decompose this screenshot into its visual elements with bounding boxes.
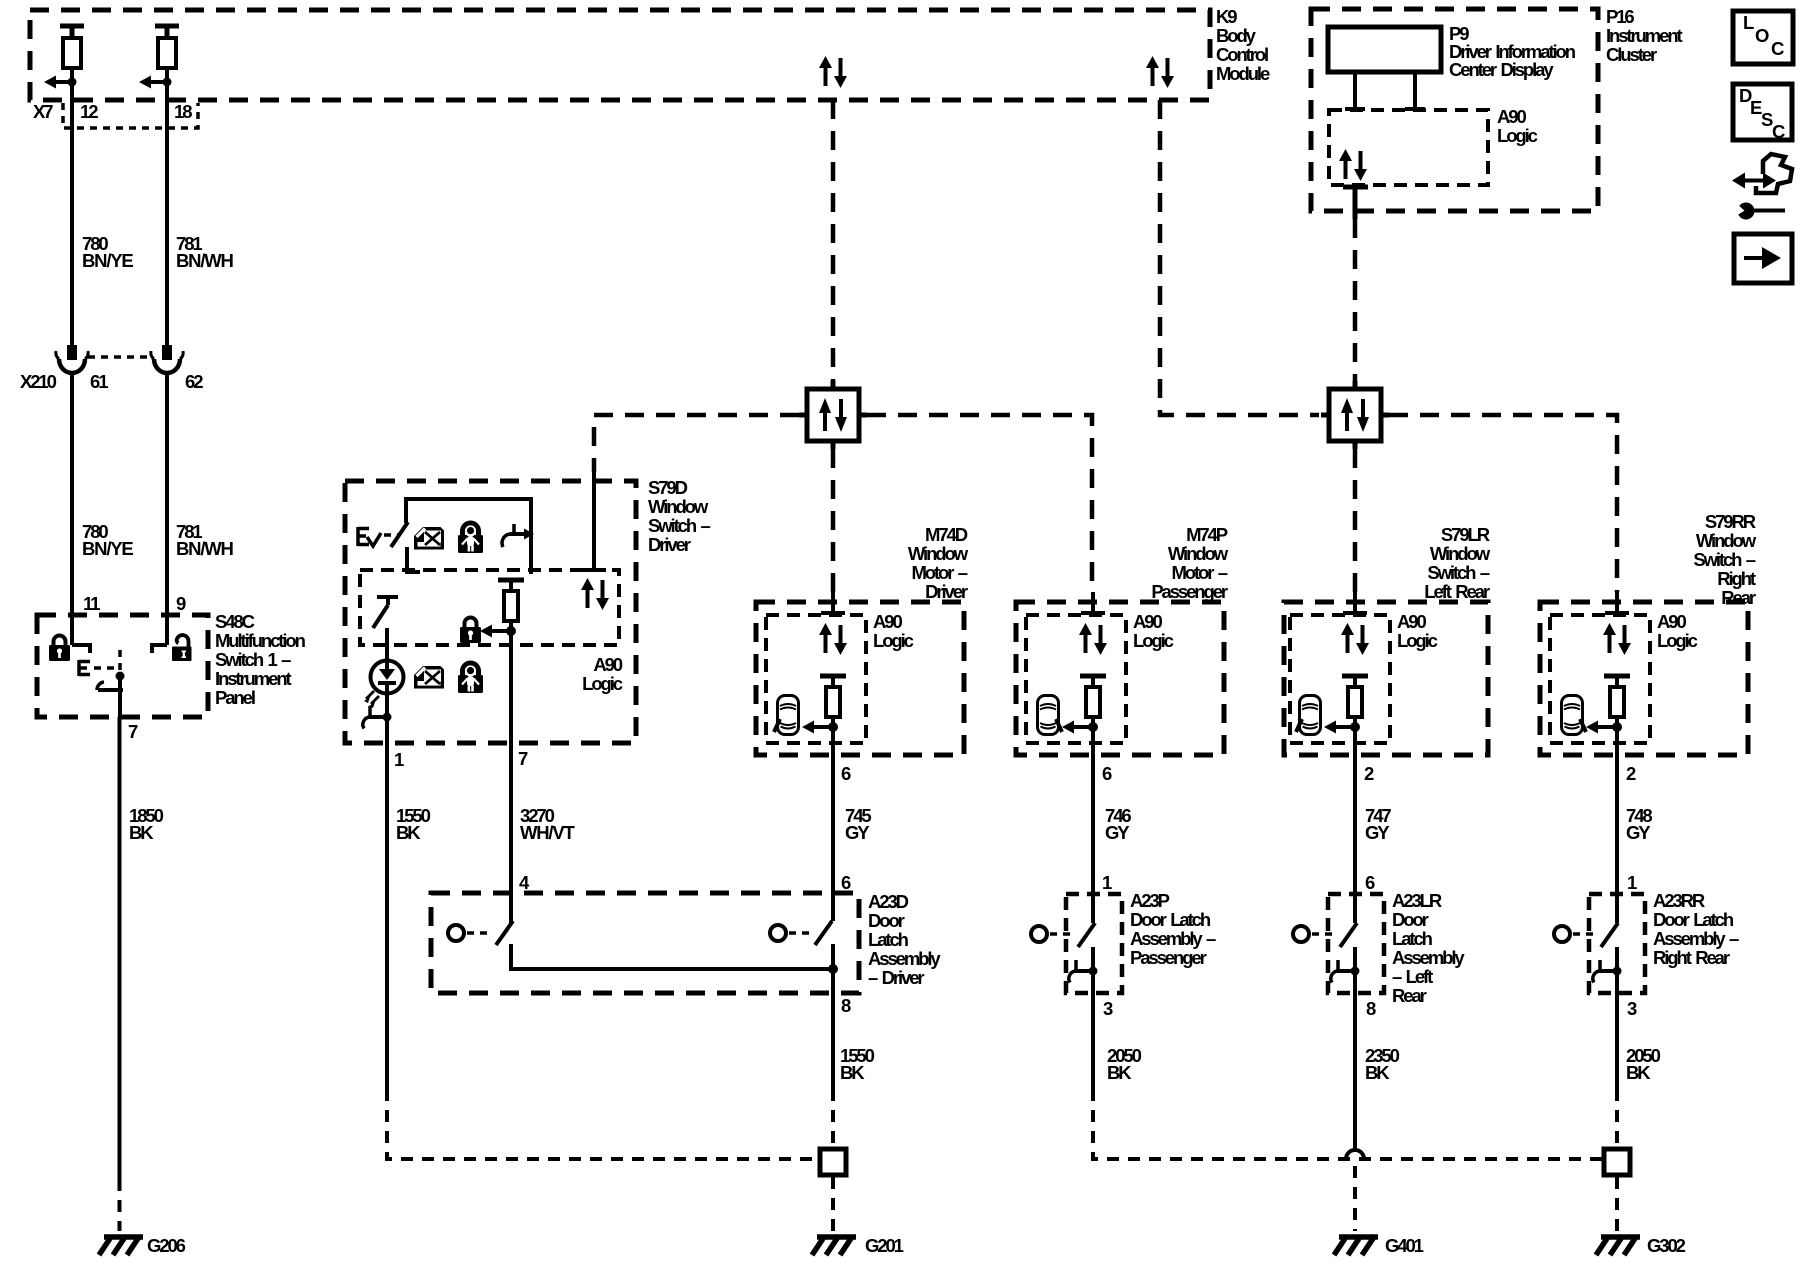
wire M74P pin 6 down [1091, 716, 1095, 923]
svg-text:C: C [1771, 38, 1784, 59]
logic block A90 inside M74D [766, 611, 914, 743]
wire 1550 BK label [840, 1045, 875, 1083]
S48C switch lever symbol E with link [79, 0, 357, 676]
switch S48C Multifunction Switch 1 - Instrument Panel box [37, 611, 306, 717]
wire from resistor to pin 7 [509, 621, 513, 743]
wire S79LR pin 2 down [1353, 716, 1357, 923]
S79D upper contact frame [406, 499, 531, 574]
wire serial data bus K9 left drop [831, 100, 836, 381]
svg-text:2: 2 [1364, 763, 1374, 784]
wire serial data bus box to M74D [831, 449, 836, 592]
nav icon DESC box [1733, 84, 1792, 142]
svg-text:G302: G302 [1647, 1235, 1686, 1256]
switch S79LR Window Switch - Left Rear box [1284, 524, 1491, 755]
svg-text:Motor –: Motor – [1171, 562, 1227, 583]
splice square (G302 run) [1604, 1149, 1630, 1175]
svg-text:11: 11 [83, 593, 100, 614]
wire 746 GY label [1105, 805, 1131, 843]
svg-text:GY: GY [845, 822, 870, 843]
fuse (right, feeds pin 18 circuit) [139, 26, 179, 89]
svg-text:Switch –: Switch – [1427, 562, 1489, 583]
wire serial data bus to S79RR [1389, 415, 1617, 592]
resistor in S79D [498, 580, 524, 621]
switch S79D Window Switch - Driver box [345, 477, 710, 743]
resistor in M74D [820, 676, 846, 717]
A23D internal wire from pin 4 switch to pin 8 [511, 944, 833, 969]
svg-text:A23RR: A23RR [1653, 890, 1705, 911]
latch A23P Door Latch Assembly - Passenger box [1066, 890, 1216, 993]
svg-text:62: 62 [185, 371, 203, 392]
serial data entry S79LR [1343, 592, 1367, 613]
wire serial data bus P16 drop [1353, 219, 1358, 381]
logic block A90 inside S79LR [1290, 611, 1438, 743]
svg-text:Door Latch: Door Latch [1653, 909, 1734, 930]
svg-text:G201: G201 [865, 1235, 904, 1256]
svg-text:Panel: Panel [215, 687, 255, 708]
module K9 Body Control Module box [30, 6, 1270, 100]
svg-text:BK: BK [1107, 1062, 1132, 1083]
serial data arrows in P16 A90 [1339, 149, 1367, 181]
svg-text:8: 8 [841, 995, 851, 1016]
svg-text:Window: Window [1168, 543, 1229, 564]
wire serial data bus to S79D [594, 415, 799, 472]
serial data arrows in M74P [1079, 623, 1107, 655]
A23RR latch hook [1593, 947, 1622, 993]
svg-text:Assembly –: Assembly – [1130, 928, 1216, 949]
svg-text:Driver: Driver [648, 534, 691, 555]
resistor in S79RR [1604, 676, 1630, 717]
closed padlock icon [49, 636, 70, 662]
S79D switch blade (driver window up/down) [391, 522, 408, 547]
wire 781 BN/WH lower segment [167, 372, 234, 645]
serial data arrows in S79LR [1341, 623, 1369, 655]
logic block A90 inside S79D [360, 570, 623, 694]
child lock icon (upper) [458, 523, 483, 553]
svg-text:Latch: Latch [1392, 928, 1433, 949]
svg-text:18: 18 [174, 101, 192, 122]
arrow to car in M74D [802, 721, 838, 734]
child lock icon (lower) [458, 663, 483, 693]
svg-text:Driver: Driver [925, 581, 968, 602]
svg-text:Latch: Latch [868, 929, 909, 950]
A23LR ajar switch contact [1293, 923, 1357, 947]
splice serial data link box (right) [1321, 381, 1389, 449]
svg-text:9: 9 [176, 593, 186, 614]
wire serial data bus to M74P [867, 415, 1092, 592]
car icon in M74D [774, 696, 799, 735]
wire 2350 BK [1355, 993, 1400, 1150]
S79D momentary actuator hook (upper) [502, 524, 534, 547]
svg-text:12: 12 [80, 101, 98, 122]
svg-text:A90: A90 [1657, 611, 1686, 632]
svg-text:BK: BK [1626, 1062, 1651, 1083]
svg-text:BN/WH: BN/WH [176, 250, 234, 271]
A23P latch hook [1069, 947, 1098, 993]
serial data arrows inside K9 (left) [819, 56, 847, 88]
wire 2350 BK dashed to G401 [1353, 1166, 1357, 1231]
svg-text:Left Rear: Left Rear [1424, 581, 1490, 602]
car icon in S79RR [1562, 696, 1587, 735]
nav icon forward arrow box [1734, 234, 1792, 283]
wire 2050 BK (passenger) [1093, 993, 1142, 1089]
wire 3270 WH/VT [511, 743, 576, 923]
S79D lock-out switch symbol [373, 597, 398, 628]
LED backlight in S79D [364, 628, 404, 708]
svg-text:Control: Control [1216, 44, 1268, 65]
svg-text:– Driver: – Driver [868, 967, 924, 988]
svg-text:61: 61 [90, 371, 108, 392]
wire to pin 1 [385, 731, 389, 743]
window icon (upper) [414, 527, 444, 550]
svg-text:P16: P16 [1606, 6, 1634, 27]
logic block A90 inside M74P [1026, 611, 1174, 743]
svg-text:A90: A90 [873, 611, 902, 632]
svg-text:Window: Window [1696, 530, 1757, 551]
svg-text:Logic: Logic [1657, 630, 1698, 651]
wire 1550 BK from S79D pin 1 [387, 743, 431, 1089]
svg-text:Switch –: Switch – [1693, 549, 1755, 570]
svg-text:Assembly: Assembly [868, 948, 941, 969]
wire from fuse to X7 pin 18 [165, 82, 169, 128]
svg-text:WH/VT: WH/VT [520, 822, 576, 843]
ground G201 [812, 1235, 904, 1256]
svg-text:6: 6 [1365, 872, 1375, 893]
svg-text:A90: A90 [1133, 611, 1162, 632]
svg-text:BK: BK [396, 822, 421, 843]
S79D latch hook at pin 1 [363, 693, 392, 731]
wire splice to G302 [1615, 1177, 1619, 1231]
svg-text:S79LR: S79LR [1441, 524, 1490, 545]
connector X210 (in-line) [20, 345, 183, 392]
svg-text:1: 1 [1102, 872, 1112, 893]
svg-text:BN/WH: BN/WH [176, 538, 234, 559]
svg-text:Window: Window [648, 496, 709, 517]
wire 748 GY label [1626, 805, 1652, 843]
wire 745 GY label [845, 805, 871, 843]
svg-text:2: 2 [1626, 763, 1636, 784]
svg-text:O: O [1755, 25, 1769, 46]
car icon in M74P [1038, 696, 1063, 735]
svg-text:S79RR: S79RR [1705, 511, 1756, 532]
svg-text:1: 1 [394, 749, 404, 770]
A23P ajar switch contact [1031, 923, 1095, 947]
svg-text:Assembly –: Assembly – [1653, 928, 1739, 949]
svg-text:Center Display: Center Display [1449, 59, 1554, 80]
S48C lock contact (pin 11 side) [72, 645, 92, 653]
wire 1550 BK dashed to splice [831, 1089, 835, 1147]
wire serial data entry S79D [582, 472, 606, 570]
svg-text:Cluster: Cluster [1606, 44, 1657, 65]
fuse (left, feeds pin 12 circuit) [44, 26, 84, 89]
wire from fuse to X7 pin 12 [70, 82, 74, 128]
svg-text:Logic: Logic [1133, 630, 1174, 651]
svg-text:G401: G401 [1385, 1235, 1424, 1256]
serial data arrows in S79D A90 [581, 578, 609, 610]
wire serial data bus box to S79LR [1353, 449, 1358, 592]
latch A23D Door Latch Assembly - Driver box [431, 891, 941, 993]
resistor in M74P [1080, 676, 1106, 717]
svg-text:6: 6 [841, 872, 851, 893]
arrow to lock from resistor wire [480, 625, 516, 638]
serial data arrows in S79RR [1603, 623, 1631, 655]
svg-text:C: C [1772, 121, 1785, 142]
svg-text:X7: X7 [33, 101, 53, 122]
wire A23D pin 8 to ground run [831, 944, 835, 1089]
serial data entry M74D [821, 592, 845, 613]
svg-text:Passenger: Passenger [1151, 581, 1228, 602]
svg-text:– Left: – Left [1392, 966, 1433, 987]
svg-text:Module: Module [1216, 63, 1270, 84]
svg-text:BK: BK [129, 822, 154, 843]
svg-text:K9: K9 [1216, 6, 1237, 27]
svg-text:7: 7 [518, 748, 528, 769]
svg-text:A90: A90 [1497, 106, 1526, 127]
A23LR latch hook [1331, 947, 1360, 993]
svg-text:A90: A90 [1397, 611, 1426, 632]
svg-text:3: 3 [1627, 998, 1637, 1019]
wire S79RR pin 2 down [1615, 716, 1619, 923]
svg-text:8: 8 [1366, 998, 1376, 1019]
S48C switch common contact and lever [97, 650, 125, 690]
wire 1550 BK dashed run to splice [387, 1089, 818, 1159]
svg-text:M74P: M74P [1186, 524, 1228, 545]
latch A23LR Door Latch Assembly - Left Rear box [1328, 890, 1465, 1006]
nav icon LOC box [1733, 11, 1793, 64]
svg-text:A23LR: A23LR [1392, 890, 1442, 911]
svg-text:Motor –: Motor – [911, 562, 967, 583]
splice serial data link box (left) [799, 381, 867, 449]
svg-text:M74D: M74D [925, 524, 968, 545]
logic block A90 inside S79RR [1550, 611, 1698, 743]
serial data arrows in M74D [819, 623, 847, 655]
resistor in S79LR [1342, 676, 1368, 717]
svg-text:Switch 1 –: Switch 1 – [215, 649, 291, 670]
svg-text:Logic: Logic [1497, 125, 1538, 146]
connector X7 on K9 [33, 101, 198, 128]
wire splice to G201 [831, 1177, 835, 1231]
latch A23RR Door Latch Assembly - Right Rear box [1589, 890, 1739, 993]
svg-text:Instrument: Instrument [215, 668, 292, 689]
svg-text:Rear: Rear [1721, 587, 1756, 608]
A23D ajar switch contact (left) [448, 921, 513, 945]
arrow to car in S79LR [1324, 721, 1360, 734]
svg-text:Instrument: Instrument [1606, 25, 1683, 46]
wire serial data bus K9 right drop [1160, 100, 1319, 415]
svg-text:Switch –: Switch – [648, 515, 710, 536]
wire 780 BN/YE upper segment [72, 128, 133, 345]
wire P9 right leg [1405, 72, 1425, 109]
svg-text:S48C: S48C [215, 611, 255, 632]
svg-text:Door: Door [1392, 909, 1429, 930]
svg-text:6: 6 [1102, 763, 1112, 784]
svg-text:Right Rear: Right Rear [1653, 947, 1730, 968]
svg-text:S79D: S79D [648, 477, 688, 498]
svg-text:Logic: Logic [873, 630, 914, 651]
serial data arrows inside K9 (right) [1146, 56, 1174, 88]
small padlock icon in S79D [460, 618, 481, 644]
motor M74D Window Motor - Driver box [756, 524, 969, 755]
arrow to car in S79RR [1586, 721, 1622, 734]
arrow to car in M74P [1062, 721, 1098, 734]
A23D ajar switch contact (right) [770, 921, 832, 945]
svg-text:Door Latch: Door Latch [1130, 909, 1211, 930]
svg-text:3: 3 [1103, 998, 1113, 1019]
svg-text:1: 1 [1627, 872, 1637, 893]
wire 2050 BK (right rear) [1617, 993, 1661, 1089]
svg-text:BN/YE: BN/YE [82, 250, 133, 271]
nav icon diagnostics (arrows and wrench) [1732, 154, 1792, 220]
module P16 Instrument Cluster box [1311, 6, 1683, 211]
svg-text:GY: GY [1105, 822, 1130, 843]
wire 1850 BK [120, 717, 164, 1231]
serial data entry S79RR [1605, 592, 1629, 613]
svg-text:Logic: Logic [1397, 630, 1438, 651]
svg-text:Door: Door [868, 910, 905, 931]
svg-text:Body: Body [1216, 25, 1257, 46]
svg-text:7: 7 [128, 721, 138, 742]
wire M74D pin 6 down [831, 716, 835, 921]
svg-text:6: 6 [841, 763, 851, 784]
svg-text:Multifunction: Multifunction [215, 630, 306, 651]
A23RR ajar switch contact [1554, 923, 1618, 947]
display P9 Driver Information Center Display [1328, 23, 1576, 80]
wire 2050 BK dashed to splice [1615, 1089, 1619, 1147]
car icon in S79LR [1296, 696, 1321, 735]
serial data lead from P16 A90 [1343, 187, 1368, 219]
svg-text:BK: BK [840, 1062, 865, 1083]
svg-text:GY: GY [1626, 822, 1651, 843]
svg-text:4: 4 [519, 872, 530, 893]
wire P9 left leg [1345, 72, 1365, 109]
svg-text:BN/YE: BN/YE [82, 538, 133, 559]
wire 781 BN/WH upper segment [167, 128, 234, 345]
ground G206 [99, 1235, 186, 1256]
splice square (G201 run) [820, 1149, 846, 1175]
wire hop over G302 run [1346, 1150, 1364, 1159]
serial data entry M74P [1081, 592, 1105, 613]
svg-text:BK: BK [1365, 1062, 1390, 1083]
svg-text:Right: Right [1717, 568, 1756, 589]
svg-text:X210: X210 [20, 371, 57, 392]
svg-text:A23D: A23D [868, 891, 909, 912]
svg-text:Window: Window [908, 543, 969, 564]
S48C unlock contact (pin 9 side) [150, 645, 167, 653]
svg-text:Window: Window [1430, 543, 1491, 564]
svg-text:Rear: Rear [1392, 985, 1427, 1006]
svg-text:Logic: Logic [582, 673, 623, 694]
window icon (lower) [414, 666, 444, 689]
svg-text:G206: G206 [147, 1235, 186, 1256]
svg-text:GY: GY [1365, 822, 1390, 843]
svg-text:Passenger: Passenger [1130, 947, 1207, 968]
motor M74P Window Motor - Passenger box [1016, 524, 1229, 755]
wire 780 BN/YE lower segment [72, 372, 133, 645]
logic block A90 inside P16 [1329, 106, 1538, 185]
svg-text:A90: A90 [593, 654, 622, 675]
wire 2050 BK dashed run to splice [1093, 1089, 1602, 1159]
svg-text:A23P: A23P [1130, 890, 1170, 911]
svg-text:Assembly: Assembly [1392, 947, 1465, 968]
wire from S48C common to pin 7 [118, 676, 122, 717]
wire 747 GY label [1365, 805, 1391, 843]
ground G302 [1596, 1235, 1686, 1256]
S79D express-down symbol E [358, 527, 399, 546]
switch S79RR Window Switch - Right Rear box [1540, 511, 1757, 755]
open padlock icon [172, 635, 192, 661]
ground G401 [1334, 1235, 1424, 1256]
junction dot [828, 964, 838, 974]
